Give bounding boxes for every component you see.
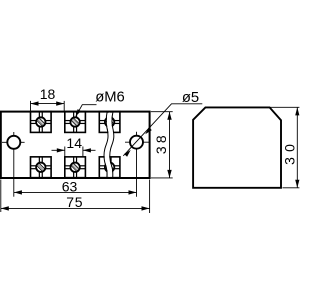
- hole left (o5) centerlines: [2, 141, 25, 143]
- label o5: leader line through hole with arrows: [123, 104, 202, 156]
- screw terminal B1 (M6 screw in square cell): [31, 157, 52, 178]
- svg-text:18: 18: [40, 86, 56, 102]
- dimension 18: extension lines: [30, 101, 32, 111]
- screw terminal A2 (M6 screw in square cell): [65, 112, 86, 133]
- break line (left wavy line): [104, 111, 108, 179]
- svg-text:63: 63: [62, 179, 78, 195]
- screw terminal A3 (M6 screw in square cell): [99, 112, 120, 133]
- svg-text:øM6: øM6: [95, 90, 125, 106]
- svg-text:30: 30: [281, 139, 297, 165]
- screw terminal A1 (M6 screw in square cell): [31, 112, 52, 133]
- plate outline (front view): [1, 112, 150, 178]
- dimension 75: extension lines: [0, 180, 2, 213]
- dimension 38: extension lines: [151, 111, 173, 113]
- screw terminal B2 (M6 screw in square cell): [65, 157, 86, 178]
- screw terminal B3 (M6 screw in square cell): [99, 157, 120, 178]
- dimension 14: dimension line with outside arrows: [52, 149, 65, 151]
- dimension 18: dimension line with arrows: [31, 103, 65, 105]
- label oM6: leader with arrow to screw A2: [76, 105, 97, 117]
- svg-text:75: 75: [66, 194, 83, 210]
- svg-text:14: 14: [66, 135, 82, 151]
- dimension 14: extension lines: [64, 147, 66, 157]
- dimension 63: dimension line with arrows: [14, 191, 137, 193]
- side view body (chamfered block): [193, 107, 281, 187]
- svg-text:ø5: ø5: [182, 90, 199, 106]
- dimension 30: dimension line with arrows: [296, 107, 298, 188]
- hole right (o5) centerlines: [125, 141, 149, 143]
- dimension 75: dimension line with arrows: [1, 207, 150, 209]
- dimension 38: dimension line with arrows: [169, 112, 171, 178]
- hole right (o5): [130, 136, 143, 149]
- svg-text:38: 38: [153, 132, 169, 154]
- break line (right wavy line): [110, 111, 114, 179]
- dimension 30: extension lines: [271, 106, 300, 108]
- hole left (o5): [7, 136, 20, 149]
